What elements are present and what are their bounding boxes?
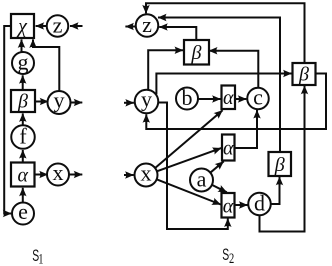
box beta3 S2: [269, 152, 292, 176]
box beta1 S2: [184, 40, 209, 65]
svg-text:z: z: [53, 13, 63, 38]
wire input to x S2: [124, 174, 134, 176]
label S1: [32, 245, 43, 266]
svg-text:β: β: [298, 64, 309, 86]
svg-text:y: y: [54, 88, 65, 113]
box alpha S1: [11, 163, 35, 187]
wire f to beta S1: [22, 113, 24, 125]
wire d to beta3 S2: [271, 177, 280, 204]
wire alpha2 to c S2: [235, 98, 246, 100]
wire y to beta1 S2: [148, 50, 183, 90]
svg-text:β: β: [17, 91, 28, 113]
svg-text:2: 2: [229, 249, 234, 266]
wire y to chi loop S1: [33, 39, 59, 91]
svg-text:α: α: [17, 165, 28, 187]
wire x to output S1: [69, 174, 82, 176]
svg-text:z: z: [142, 12, 152, 37]
node g S1: [12, 50, 34, 75]
svg-text:α: α: [223, 87, 234, 109]
node y S2: [135, 87, 159, 114]
node a S2: [190, 167, 213, 192]
wire y to beta2 S2: [156, 74, 291, 95]
svg-text:d: d: [254, 191, 265, 216]
node c S2: [247, 85, 269, 110]
wire a to alpha3 S2: [210, 161, 223, 172]
box alpha2 S2: [222, 86, 236, 110]
svg-text:α: α: [223, 196, 234, 218]
wire z to output S2: [125, 26, 135, 28]
svg-text:x: x: [141, 161, 152, 186]
wire x to alpha2 S2: [155, 110, 223, 168]
node f S1: [11, 124, 35, 149]
box alpha3 S2: [222, 135, 235, 161]
wire e to alpha S1: [22, 188, 24, 203]
wire beta to y S1: [35, 101, 48, 103]
wire beta2 to z S2: [146, 3, 305, 63]
wire alpha to f S1: [22, 150, 24, 162]
node y S1: [48, 88, 71, 115]
node z S1: [47, 13, 69, 38]
wire d to beta2 S2: [260, 86, 305, 232]
node b S2: [176, 85, 198, 110]
wire alpha to x S1: [35, 174, 48, 176]
wire alpha3 to c S2: [235, 110, 257, 148]
wire alpha4 to d S2: [235, 204, 248, 206]
node z S2: [136, 12, 159, 37]
wire b to alpha2 S2: [198, 98, 221, 100]
node e S1: [12, 199, 34, 225]
box beta2 S2: [293, 63, 316, 86]
node x S1: [47, 160, 69, 186]
svg-text:β: β: [274, 154, 285, 176]
wire chi to e feedback S1: [4, 26, 11, 214]
svg-text:χ: χ: [16, 16, 28, 38]
wire y to output S1: [71, 102, 83, 104]
svg-text:α: α: [223, 138, 234, 160]
svg-text:x: x: [53, 160, 64, 185]
wire z to chi S1: [36, 25, 47, 27]
node x S2: [135, 161, 158, 187]
wire beta to g S1: [22, 75, 24, 90]
svg-text:g: g: [18, 50, 29, 75]
svg-text:c: c: [253, 85, 263, 110]
svg-text:e: e: [18, 199, 28, 224]
wire y to alpha4 S2: [158, 103, 227, 230]
svg-text:f: f: [19, 124, 27, 149]
label S2: [222, 244, 234, 266]
box alpha4 S2: [222, 193, 235, 218]
wire beta1 to z S2: [159, 27, 196, 41]
svg-text:y: y: [141, 87, 152, 112]
node d S2: [248, 191, 271, 216]
wire g to chi S1: [21, 39, 23, 52]
svg-text:a: a: [197, 167, 207, 192]
svg-text:b: b: [182, 85, 193, 110]
box chi S1: [11, 14, 34, 38]
wire a to alpha4 S2: [212, 185, 227, 192]
wire x to alpha3 S2: [157, 148, 221, 171]
wire input to z S1: [70, 25, 83, 27]
wire beta3 to z S2: [158, 18, 280, 152]
svg-text:β: β: [191, 42, 202, 64]
wire beta2 to y S2: [146, 74, 326, 130]
svg-text:1: 1: [38, 249, 43, 266]
svg-text:S: S: [222, 244, 229, 263]
wire c to beta1 S2: [209, 51, 258, 88]
box beta S1: [11, 90, 35, 113]
wire x to alpha4 S2: [157, 179, 221, 204]
wire input to y S2: [124, 102, 134, 104]
